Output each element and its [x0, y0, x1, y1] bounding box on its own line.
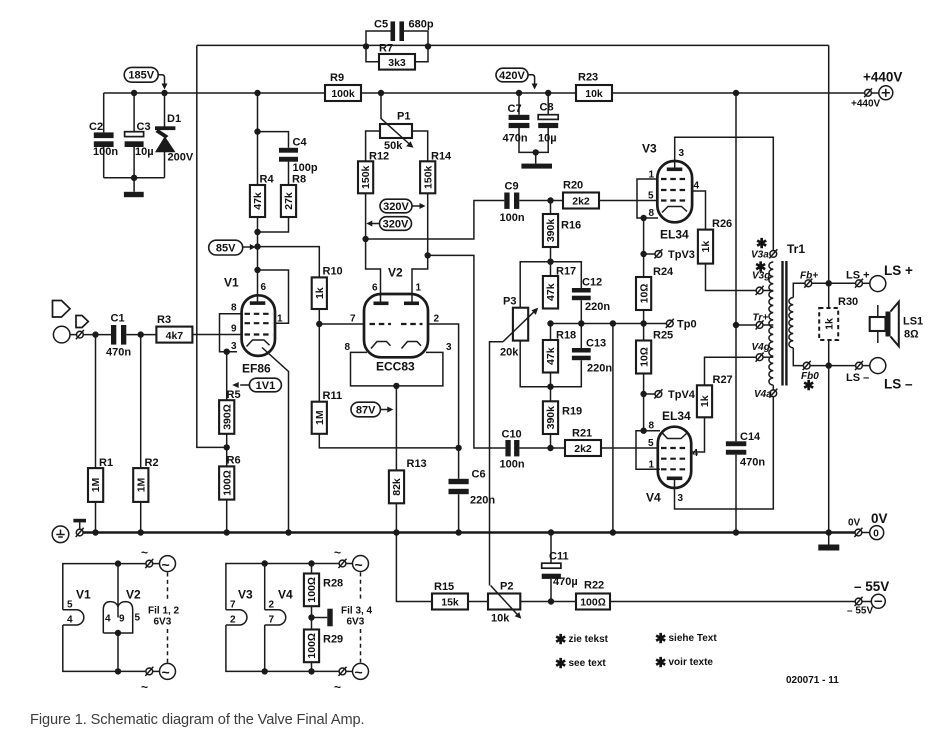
node 85V (anode/R10 junction) [254, 243, 260, 249]
svg-text:470µ: 470µ [553, 576, 578, 588]
wire V3 anode to V3a tap [675, 137, 774, 250]
V4 grid rows (dashed) [661, 448, 687, 469]
svg-text:7: 7 [269, 615, 275, 626]
node C3 top on rail [131, 90, 137, 96]
dashed link Fil 3,4 [341, 572, 373, 662]
svg-text:R28: R28 [323, 578, 343, 590]
wire R20 to V3 grid pin5 [599, 200, 658, 202]
node V3 cathode [640, 215, 646, 221]
svg-text:R13: R13 [407, 458, 427, 470]
wire R13 bottom through rail to bias line [396, 503, 432, 601]
connector Fb+ [800, 271, 818, 288]
svg-text:~: ~ [162, 664, 170, 680]
svg-text:R19: R19 [562, 406, 582, 418]
svg-text:100k: 100k [331, 88, 355, 100]
ground below C7/C8 [521, 152, 552, 168]
wire top feedback bus y=45 [197, 44, 829, 46]
Tr1 core [781, 261, 787, 386]
svg-text:C11: C11 [549, 551, 569, 563]
tube V1 EF86 envelope [224, 276, 275, 376]
node Tr+ vertical on rail [733, 90, 739, 96]
node V1 heater line bottom [285, 529, 291, 535]
svg-text:V4g: V4g [752, 342, 770, 353]
wire anode node to R10 top [258, 247, 320, 278]
svg-text:V2: V2 [126, 588, 141, 602]
svg-text:1k: 1k [314, 287, 326, 299]
capacitor C7 470n [503, 93, 536, 152]
svg-text:1: 1 [277, 314, 283, 325]
node R5/R6 feedback junction [224, 444, 230, 450]
svg-text:C5: C5 [374, 19, 388, 31]
capacitor C3 10u electrolytic [125, 93, 154, 178]
svg-text:9: 9 [231, 324, 237, 335]
svg-text:+440V: +440V [851, 99, 881, 110]
V2 pin 6 label [372, 283, 378, 294]
input plug [70, 330, 112, 339]
node C12/C13 on Tp0 line [578, 320, 584, 326]
svg-text:100n: 100n [500, 212, 525, 224]
V4 pin 8 label [649, 421, 655, 432]
wire V3 cathode chain [643, 218, 645, 277]
input arrow small [76, 316, 88, 328]
wire R16 bottom junction [520, 247, 581, 308]
svg-text:V3: V3 [238, 588, 253, 602]
node V1 pin1 takeoff [254, 267, 260, 273]
capacitor C4 100p [258, 132, 318, 185]
node V1 cathode [224, 349, 230, 355]
svg-text:~: ~ [355, 556, 363, 572]
svg-text:680p: 680p [409, 19, 434, 31]
svg-text:C4: C4 [293, 137, 308, 149]
svg-text:zie tekst: zie tekst [569, 634, 609, 645]
resistor R11 1M [312, 324, 342, 434]
wire R21 to V4 grid pin5 [601, 447, 658, 449]
resistor R12 150k [358, 151, 389, 194]
wire R19 bottom to drive line [550, 434, 552, 448]
wire right feedback vertical x=828.7 (top wire to Fb+ node) [828, 45, 830, 283]
svg-text:ECC83: ECC83 [376, 360, 415, 374]
svg-text:LS –: LS – [884, 377, 913, 392]
svg-text:0V: 0V [848, 518, 861, 529]
svg-text:10Ω: 10Ω [638, 347, 650, 367]
svg-text:D1: D1 [167, 113, 181, 125]
svg-text:R14: R14 [431, 151, 452, 163]
svg-text:390k: 390k [545, 219, 557, 243]
wire R11 bottom to C6 node [319, 434, 458, 448]
terminal 0V [848, 511, 888, 540]
svg-text:Tp0: Tp0 [677, 319, 697, 331]
heater V3 filament [226, 588, 253, 626]
svg-text:R25: R25 [653, 330, 673, 342]
heater circuit V1/V2 frame [63, 564, 146, 672]
node C5/R7 right [425, 43, 431, 49]
wire +440V rail y=93 [104, 92, 865, 94]
capacitor C1 470n [106, 313, 156, 359]
svg-text:C3: C3 [137, 121, 151, 133]
terminal LS+ [846, 263, 913, 292]
svg-text:470n: 470n [503, 133, 528, 145]
dashed link Fil 1,2 [148, 573, 180, 663]
heater V1 filament [63, 588, 91, 626]
node C6 bottom [455, 529, 461, 535]
svg-text:V4: V4 [278, 588, 293, 602]
svg-text:3: 3 [678, 493, 684, 504]
node Tr+ feed [733, 322, 739, 328]
wire R12 bottom to V2 pin6 [366, 193, 381, 303]
svg-text:4: 4 [67, 615, 73, 626]
resistor R19 390k [543, 401, 582, 434]
resistor R9 100k [325, 72, 361, 101]
svg-text:6V3: 6V3 [347, 617, 365, 628]
terminal +440V [851, 70, 902, 110]
node R4/C4 top split [254, 128, 260, 134]
svg-text:220n: 220n [587, 363, 612, 375]
svg-text:320V: 320V [383, 219, 409, 231]
svg-text:82k: 82k [391, 478, 403, 496]
svg-text:85V: 85V [216, 242, 236, 254]
wire R27 top to V4g tap [705, 357, 757, 385]
svg-text:1M: 1M [135, 477, 147, 492]
terminal LS- [846, 358, 913, 392]
svg-text:R29: R29 [323, 634, 343, 646]
svg-text:R22: R22 [584, 580, 604, 592]
svg-text:6: 6 [261, 282, 267, 293]
svg-text:R27: R27 [713, 374, 733, 386]
V1 pin 3 label [231, 341, 237, 352]
wire V2 cathode loop [351, 352, 443, 386]
svg-text:siehe Text: siehe Text [669, 633, 718, 644]
wire +440 rail to Tr+ and C14 [735, 93, 737, 441]
svg-text:C14: C14 [740, 431, 761, 443]
terminal earth left [52, 519, 86, 543]
resistor R15 15k [432, 581, 468, 610]
svg-text:✱: ✱ [803, 378, 815, 393]
wire 0V rail [83, 531, 855, 533]
V2 pin 1 label [416, 283, 422, 294]
node C7/C8 bottom join [533, 149, 539, 155]
svg-text:R4: R4 [260, 174, 275, 186]
svg-text:P2: P2 [500, 581, 513, 593]
svg-text:10k: 10k [585, 88, 603, 100]
V3 grid rows (dashed) [661, 179, 688, 201]
V1 pin 1 label [277, 314, 283, 325]
svg-text:R16: R16 [561, 220, 581, 232]
svg-text:Fil 3, 4: Fil 3, 4 [341, 606, 373, 617]
svg-text:100Ω: 100Ω [580, 597, 606, 609]
svg-text:R5: R5 [227, 389, 241, 401]
svg-text:3: 3 [679, 148, 685, 159]
svg-text:EL34: EL34 [662, 409, 691, 423]
svg-text:15k: 15k [441, 597, 459, 609]
tube V4 EL34 envelope [646, 409, 691, 505]
svg-text:100p: 100p [293, 162, 318, 174]
node V2 pin7 / R10 / R11 [316, 321, 322, 327]
wire P1 right to R14 [412, 131, 428, 161]
node R17/R18 on Tp0 line [547, 320, 553, 326]
capacitor C14 470n [726, 431, 765, 533]
resistor R7 3k3 [366, 43, 428, 70]
resistor R22 100R [576, 580, 610, 610]
resistor R25 10R [636, 330, 673, 374]
oval 420V [496, 68, 538, 89]
svg-text:3k3: 3k3 [388, 57, 406, 69]
node TpV3 [640, 251, 646, 257]
node R1 bottom [92, 529, 98, 535]
svg-text:R11: R11 [323, 390, 343, 402]
svg-text:R15: R15 [434, 581, 454, 593]
svg-text:10Ω: 10Ω [638, 284, 650, 304]
svg-text:EL34: EL34 [660, 228, 689, 242]
capacitor C13 220n [551, 324, 613, 387]
node C7 top on rail [516, 90, 522, 96]
svg-text:7: 7 [230, 600, 236, 611]
svg-text:R10: R10 [323, 266, 343, 278]
svg-text:P3: P3 [503, 296, 516, 308]
svg-text:R24: R24 [653, 266, 674, 278]
node R28 top [308, 560, 314, 566]
oval 85V with arrow [209, 240, 256, 255]
svg-text:47k: 47k [252, 192, 264, 210]
oval 1V1 with arrow [232, 378, 281, 392]
svg-text:7: 7 [350, 314, 356, 325]
heater supply plug Fil3,4 bottom [334, 663, 369, 694]
wire R18 bottom / P3 bottom [520, 341, 550, 402]
svg-text:4k7: 4k7 [166, 330, 184, 342]
node R12 bottom (C9 takeoff) [362, 236, 368, 242]
svg-text:2k2: 2k2 [572, 196, 590, 208]
svg-text:420V: 420V [499, 70, 525, 82]
resistor R8 27k [281, 174, 306, 218]
svg-text:20k: 20k [500, 347, 519, 359]
wire R4 bottom to V1 anode [257, 217, 259, 303]
V4 pin 5 label [648, 438, 654, 449]
svg-text:C1: C1 [111, 313, 125, 325]
wire R10 bottom to V2 grid pin7 [319, 309, 364, 324]
capacitor C6 220n [449, 448, 496, 533]
svg-text:1V1: 1V1 [256, 380, 276, 392]
heater circuit V3/V4 frame [226, 564, 339, 672]
svg-text:TpV4: TpV4 [668, 389, 696, 401]
svg-text:100Ω: 100Ω [306, 577, 318, 603]
caption [30, 712, 365, 728]
svg-text:3: 3 [446, 342, 452, 353]
node C14 bottom [733, 529, 739, 535]
svg-text:C8: C8 [540, 102, 554, 114]
capacitor C5 680p [366, 19, 434, 47]
node R16 bottom [547, 259, 553, 265]
svg-text:✱: ✱ [756, 236, 768, 251]
zener diode D1 200V [155, 93, 194, 178]
legend zie tekst [555, 632, 609, 647]
resistor R16 390k [543, 201, 581, 248]
svg-text:✱: ✱ [755, 260, 767, 275]
node R18/R19 junction [547, 384, 553, 390]
node V4 cathode [640, 428, 646, 434]
svg-text:220n: 220n [585, 301, 610, 313]
svg-text:390k: 390k [545, 406, 557, 430]
node R6 bottom [224, 529, 230, 535]
connector Tr+ [736, 313, 773, 330]
svg-text:020071 - 11: 020071 - 11 [786, 675, 839, 686]
svg-text:V2: V2 [388, 266, 403, 280]
node R29 bottom [308, 668, 314, 674]
node C5/R7 left [363, 43, 369, 49]
V1 cathode hat [247, 340, 270, 347]
wire bias line [432, 601, 855, 603]
wire R26 bottom to V3g tap [706, 264, 757, 291]
potentiometer P3 20k [500, 296, 538, 359]
V2 anode bars [374, 302, 420, 306]
tube V3 EL34 envelope [642, 142, 692, 242]
wire R3 to V1 grid pin9 [192, 334, 241, 336]
svg-text:5: 5 [648, 191, 654, 202]
svg-text:5: 5 [648, 438, 654, 449]
svg-text:voir texte: voir texte [669, 657, 714, 668]
svg-text:TpV3: TpV3 [668, 249, 695, 261]
svg-text:R3: R3 [157, 314, 171, 326]
svg-text:✱: ✱ [655, 655, 667, 670]
potentiometer P2 10k [488, 581, 521, 625]
svg-text:47k: 47k [545, 347, 557, 365]
V1 anode bar [250, 301, 265, 305]
wire left feedback vertical x=196.8 [197, 45, 227, 447]
oval 185V [124, 67, 167, 89]
node R1 top [92, 331, 98, 337]
test point TpV3 [644, 249, 695, 261]
svg-text:150k: 150k [360, 165, 372, 189]
svg-text:8: 8 [649, 421, 655, 432]
svg-text:2: 2 [269, 600, 275, 611]
V2 pin 7 label [350, 314, 356, 325]
V2 pin 8 label [345, 342, 351, 353]
capacitor C9 100n [500, 181, 564, 225]
svg-text:V1: V1 [224, 276, 239, 290]
svg-text:8: 8 [231, 303, 237, 314]
terminal -55V [847, 579, 889, 617]
svg-text:R8: R8 [292, 174, 306, 186]
svg-text:8: 8 [345, 342, 351, 353]
svg-text:R30: R30 [838, 296, 858, 308]
resistor R13 82k [389, 386, 427, 503]
wire Tp0 ground vertical [612, 324, 614, 533]
V3 pin 8 label [649, 208, 655, 219]
svg-text:~: ~ [334, 546, 341, 560]
ground at heater center tap [312, 606, 333, 629]
wire secondary top to Fb+ [793, 283, 805, 297]
svg-text:LS1: LS1 [903, 316, 923, 328]
resistor R5 390R [219, 352, 240, 434]
node heater V2 top [115, 560, 121, 566]
wire P3 wiper down to P2 [490, 342, 504, 586]
wire R12 node to C9 riser [366, 201, 505, 240]
svg-text:Tr+: Tr+ [753, 313, 769, 324]
wire R29 bottom [311, 662, 313, 671]
svg-text:185V: 185V [128, 70, 154, 82]
connector Fb0 [801, 361, 819, 393]
wire V1 pin8-pin3 loop [220, 314, 242, 352]
svg-text:27k: 27k [283, 192, 295, 210]
wire V3 screen pin4 to R26 [692, 191, 705, 230]
capacitor C11 470u electrolytic [542, 533, 578, 602]
svg-text:R12: R12 [369, 151, 389, 163]
svg-text:390Ω: 390Ω [221, 404, 233, 430]
svg-text:C6: C6 [472, 469, 486, 481]
svg-text:R2: R2 [145, 457, 159, 469]
svg-text:R20: R20 [563, 180, 583, 192]
legend voir texte [655, 655, 713, 670]
resistor R1 1M [88, 335, 113, 533]
tube V2 ECC83 envelope [364, 266, 428, 374]
svg-text:6: 6 [372, 283, 378, 294]
Tr1 primary winding [769, 262, 773, 385]
svg-text:C10: C10 [502, 429, 522, 441]
svg-text:C7: C7 [508, 103, 522, 115]
V3 pin 5 label [648, 191, 654, 202]
svg-text:5: 5 [135, 613, 141, 624]
wire R24 bottom to Tp0 line [643, 310, 645, 341]
node C11 top [548, 529, 554, 535]
resistor R6 100R [219, 434, 240, 533]
node heater V2 bottom rail [115, 668, 121, 674]
svg-text:see text: see text [569, 658, 607, 669]
wire Fb+ to LS+ [812, 282, 856, 284]
svg-text:✱: ✱ [555, 656, 567, 671]
capacitor C8 10u electrolytic [536, 93, 559, 152]
svg-text:220n: 220n [470, 495, 495, 507]
wire rail to R4 top [257, 93, 259, 185]
ground bar at 0V right [818, 533, 839, 551]
V3 cathode hat [662, 207, 687, 213]
svg-text:1k: 1k [824, 318, 836, 330]
node heater V2 bottom center [115, 630, 121, 636]
svg-text:2: 2 [434, 314, 440, 325]
svg-text:1k: 1k [699, 395, 711, 407]
transformer Tr1 label [787, 242, 805, 256]
svg-text:LS +: LS + [884, 263, 913, 278]
node C10/R21/R19 [547, 445, 553, 451]
svg-text:1M: 1M [314, 410, 326, 425]
svg-text:V3: V3 [642, 142, 657, 156]
connector V4g [752, 342, 774, 362]
V2 pin 2 label [434, 314, 440, 325]
svg-text:Figure 1. Schematic diagram of: Figure 1. Schematic diagram of the Valve… [30, 712, 365, 728]
V1 grid rows (dashed) [245, 314, 273, 335]
svg-text:Fb+: Fb+ [800, 271, 818, 282]
V1 pin 9 label [231, 324, 237, 335]
node R4 branch on rail [254, 90, 260, 96]
svg-text:87V: 87V [356, 404, 376, 416]
node R14 bottom (C10 takeoff) [425, 252, 431, 258]
svg-text:2: 2 [230, 615, 236, 626]
oval 320V upper (arrow right) [380, 199, 426, 213]
wire C2/C3/D1 bottom join [104, 177, 165, 179]
resistor R18 47k [543, 324, 576, 373]
svg-text:C2: C2 [89, 121, 103, 133]
svg-text:100n: 100n [500, 459, 525, 471]
node R13 rail crossing [393, 529, 399, 535]
svg-text:6V3: 6V3 [154, 617, 172, 628]
wire V4 anode to V4a tap [675, 397, 774, 509]
svg-text:✱: ✱ [555, 632, 567, 647]
svg-text:100n: 100n [93, 146, 118, 158]
svg-text:4: 4 [693, 448, 699, 459]
ground below C3 [124, 178, 144, 197]
potentiometer P1 50k [380, 93, 414, 152]
node Fb+/feedback [826, 280, 832, 286]
node C9/R20/R16 [547, 197, 553, 203]
node Tp0 ground [610, 529, 616, 535]
heater supply plug Fil3,4 top [334, 546, 369, 573]
